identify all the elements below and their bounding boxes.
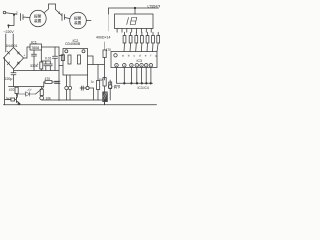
svg-text:a b c d e f g: a b c d e f g [122,54,157,58]
IC2 bottom pin circles [67,75,88,86]
display pins [117,29,151,33]
alarm bell B1 [30,10,46,26]
svg-text:J: J [58,10,60,15]
relay coil J [40,89,43,95]
wire left bottom [4,58,6,105]
alarm bell B2 [70,12,87,29]
potentiometer hatched [102,92,108,103]
LED D1 [18,89,36,96]
svg-text:1M: 1M [99,78,104,82]
power rail top [109,8,159,14]
wire AC drop left [13,14,14,15]
wire [45,4,62,16]
bottom rail short [42,99,107,101]
wire [6,13,17,15]
svg-text:400Ω×14: 400Ω×14 [96,36,110,40]
svg-text:1N4001: 1N4001 [6,44,18,48]
svg-text:IC3: IC3 [137,59,143,63]
svg-text:0.01: 0.01 [45,57,52,61]
wire IC2 left pins [59,56,63,66]
svg-text:J: J [16,10,18,15]
transistor Q1 [15,94,20,105]
bottom rail long [4,104,157,106]
wire AC drop mid [12,34,14,47]
svg-text:+: + [37,63,39,67]
wire mid rail [14,70,59,72]
svg-text:报警: 报警 [74,16,82,21]
wire left column [58,47,60,101]
svg-text:~220V: ~220V [4,30,15,34]
capacitor C1 [32,50,37,71]
trimmer [109,82,112,89]
bus [117,82,153,84]
svg-text:+: + [24,53,26,57]
svg-text:1μ: 1μ [91,79,95,83]
wire regulator out [42,46,60,48]
capacitor Cb [48,61,52,71]
svg-text:LTS547R: LTS547R [148,5,161,9]
wire IC3 bottom pins [117,68,151,84]
capacitor Ca [44,61,48,71]
IC3 [111,52,157,68]
wire IC2 right pins [88,56,99,81]
svg-text:调节: 调节 [114,84,121,89]
capacitor C2 [55,81,61,83]
svg-text:装置: 装置 [74,20,82,25]
wire diagonal [36,88,44,95]
svg-text:7808: 7808 [31,46,39,50]
svg-text:470: 470 [9,88,15,92]
wire [86,20,91,22]
svg-text:装置: 装置 [34,18,42,23]
wire display anode [134,8,136,14]
display LTS547R [115,14,154,29]
svg-text:报警: 报警 [34,14,42,19]
wire pin link [80,86,94,100]
svg-text:IC3.IC4: IC3.IC4 [138,86,149,90]
svg-text:CD4060B: CD4060B [65,42,81,46]
svg-text:220μ: 220μ [5,77,13,81]
rail mid-left [9,86,44,88]
wire bridge out [24,47,31,58]
terminal [3,11,6,14]
